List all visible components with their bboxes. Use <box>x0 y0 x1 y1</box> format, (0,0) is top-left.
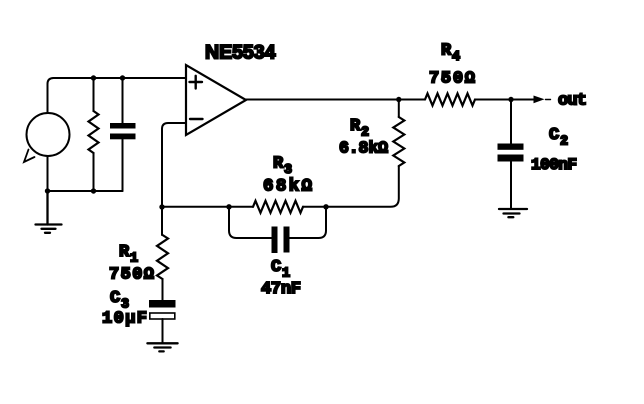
wire op-amp output rail <box>246 99 425 101</box>
op-amp U1 <box>186 65 246 135</box>
label C3 <box>110 289 129 313</box>
label C1 <box>271 258 290 282</box>
svg-text:R: R <box>350 117 361 136</box>
wire R4 to output node <box>475 99 511 101</box>
wire C3 to ground lead <box>162 319 164 343</box>
svg-text:10µF: 10µF <box>102 310 147 329</box>
node top rail bias resistor junction <box>91 75 96 80</box>
ground G1 <box>36 191 62 233</box>
wire bottom rail <box>48 190 123 192</box>
label R4 <box>441 42 460 66</box>
svg-text:out: out <box>558 92 587 111</box>
capacitor C3 <box>149 300 176 319</box>
svg-text:C: C <box>271 258 281 277</box>
svg-text:R: R <box>273 155 284 174</box>
svg-text:R: R <box>119 243 130 262</box>
ground G2 <box>147 343 177 351</box>
wire R2 top lead <box>398 99 400 117</box>
node R3 right junction <box>323 204 328 209</box>
svg-text:R: R <box>441 42 452 61</box>
ground G3 <box>499 209 527 217</box>
wire C2 top lead <box>510 100 512 144</box>
svg-text:6.8kΩ: 6.8kΩ <box>339 139 388 158</box>
wire C1 left branch <box>229 207 272 238</box>
wire R1 to C3 lead <box>162 279 164 300</box>
node R2 top junction <box>396 97 401 102</box>
node mic/ground junction <box>45 188 50 193</box>
label R1 <box>119 243 138 267</box>
svg-text:68kΩ: 68kΩ <box>263 177 312 197</box>
node bias resistor bottom junction <box>91 188 96 193</box>
label R3 <box>273 155 292 179</box>
wire top rail to op-amp + input <box>54 77 187 79</box>
resistor R2 <box>393 117 404 166</box>
svg-text:C: C <box>549 126 559 145</box>
svg-text:NE5534: NE5534 <box>205 42 276 64</box>
wire R1 top lead <box>161 207 163 235</box>
resistor R1 <box>157 235 168 279</box>
node C2 top junction <box>508 97 513 102</box>
capacitor C2 <box>498 144 524 162</box>
resistor R3 <box>253 201 303 213</box>
resistor R4 <box>425 94 475 106</box>
svg-text:4: 4 <box>452 50 460 65</box>
svg-text:1: 1 <box>130 252 138 267</box>
wire op-amp inverting input to feedback node <box>162 123 186 207</box>
wire mic bottom lead <box>47 156 49 191</box>
wire R2 bottom branch <box>326 166 399 207</box>
wire feedback rail left <box>162 206 253 208</box>
label C2 <box>549 126 568 150</box>
svg-text:C: C <box>110 289 120 308</box>
resistor bias (unlabeled) <box>89 78 99 191</box>
wire feedback rail right <box>303 206 326 208</box>
node feedback junction <box>159 204 164 209</box>
svg-text:2: 2 <box>560 135 568 150</box>
wire C1 right branch <box>290 207 327 238</box>
svg-text:100nF: 100nF <box>531 156 577 174</box>
wire C2 to ground lead <box>510 162 512 210</box>
svg-text:750Ω: 750Ω <box>429 70 475 89</box>
label R2 <box>350 117 369 141</box>
wire mic top lead <box>48 78 54 113</box>
svg-text:750Ω: 750Ω <box>109 266 154 285</box>
capacitor bias (unlabeled) <box>110 78 136 191</box>
capacitor C1 <box>272 227 290 254</box>
node top rail bias cap junction <box>120 75 125 80</box>
node R3 left junction <box>226 204 231 209</box>
microphone MIC <box>24 113 70 162</box>
wire output arrow <box>511 96 551 104</box>
svg-text:47nF: 47nF <box>261 280 301 299</box>
